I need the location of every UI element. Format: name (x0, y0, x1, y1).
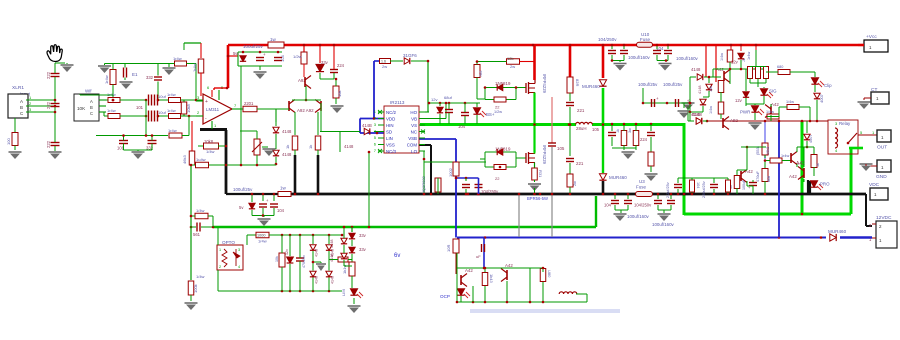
svg-text:104: 104 (277, 208, 285, 213)
svg-text:12k: 12k (507, 56, 513, 61)
svg-text:1r4w: 1r4w (168, 128, 177, 133)
svg-text:OPTO: OPTO (222, 240, 235, 245)
svg-text:68uf: 68uf (444, 95, 453, 100)
svg-text:LIM: LIM (341, 289, 346, 296)
svg-text:E1: E1 (132, 72, 138, 77)
svg-text:Relay: Relay (839, 121, 851, 126)
svg-text:A42: A42 (505, 263, 513, 268)
svg-text:104/250v: 104/250v (481, 189, 499, 194)
svg-text:1/4w: 1/4w (196, 208, 205, 213)
svg-text:XLR1: XLR1 (12, 85, 24, 91)
svg-text:220uf/25v: 220uf/25v (702, 181, 706, 198)
svg-text:1k: 1k (616, 129, 620, 133)
svg-text:LO: LO (411, 149, 417, 154)
svg-text:224: 224 (337, 63, 345, 68)
svg-text:100uf/25v: 100uf/25v (233, 187, 253, 192)
svg-text:105: 105 (557, 146, 565, 151)
svg-text:A92: A92 (730, 118, 738, 123)
svg-text:LIN: LIN (386, 136, 393, 141)
svg-text:28uH: 28uH (576, 126, 587, 131)
svg-text:105: 105 (592, 127, 600, 132)
svg-text:1: 1 (219, 248, 221, 252)
svg-text:GND: GND (876, 174, 887, 180)
svg-text:1/4w: 1/4w (196, 274, 205, 279)
svg-text:561: 561 (193, 232, 201, 237)
svg-text:Fuse: Fuse (636, 185, 647, 190)
svg-text:10R: 10R (446, 245, 451, 252)
svg-text:IRFP4229: IRFP4229 (542, 145, 547, 165)
svg-text:A42: A42 (789, 174, 797, 179)
svg-text:2w: 2w (382, 64, 387, 69)
svg-text:224: 224 (640, 137, 648, 142)
svg-text:MUR460: MUR460 (609, 175, 627, 180)
svg-text:12v: 12v (431, 97, 437, 102)
svg-text:7k5: 7k5 (478, 70, 483, 77)
svg-text:4148: 4148 (698, 86, 702, 94)
svg-text:100uf/160v: 100uf/160v (652, 222, 675, 227)
svg-text:1w: 1w (270, 37, 277, 42)
svg-text:100uf/160v: 100uf/160v (676, 56, 699, 61)
svg-text:3w: 3w (628, 128, 632, 133)
svg-text:2w: 2w (510, 64, 515, 69)
svg-text:1/2w: 1/2w (494, 110, 502, 114)
svg-text:+Vcc: +Vcc (866, 34, 877, 40)
svg-text:1/4w: 1/4w (766, 110, 774, 114)
svg-text:12v: 12v (731, 60, 739, 65)
svg-text:101: 101 (136, 105, 144, 110)
svg-text:HIN: HIN (386, 123, 394, 128)
svg-text:4148: 4148 (315, 249, 319, 257)
svg-text:VDC: VDC (869, 182, 880, 188)
svg-text:10k: 10k (709, 86, 713, 92)
svg-text:4148: 4148 (282, 129, 292, 134)
svg-text:1002: 1002 (448, 167, 453, 177)
svg-text:VDD: VDD (386, 117, 395, 122)
svg-text:470/25v: 470/25v (302, 255, 306, 268)
svg-text:IR2113: IR2113 (390, 100, 405, 105)
svg-text:100: 100 (6, 138, 11, 145)
svg-text:1r4w: 1r4w (107, 108, 116, 113)
svg-text:222: 222 (46, 101, 51, 109)
svg-text:SD: SD (386, 130, 392, 135)
svg-text:104: 104 (458, 124, 466, 129)
svg-text:COM: COM (407, 143, 418, 148)
svg-text:10k8: 10k8 (204, 139, 214, 144)
svg-text:1w: 1w (280, 186, 287, 191)
svg-text:1000: 1000 (257, 234, 265, 238)
svg-text:46k3: 46k3 (182, 155, 187, 164)
svg-text:1/4w: 1/4w (709, 106, 713, 114)
svg-text:1k: 1k (816, 163, 820, 167)
svg-text:414B: 414B (362, 123, 372, 128)
svg-text:HQ2R022: HQ2R022 (421, 175, 426, 194)
svg-text:1.6: 1.6 (381, 60, 386, 64)
svg-text:A92 A92: A92 A92 (297, 108, 314, 113)
svg-text:C: C (90, 111, 93, 116)
svg-text:4148: 4148 (691, 67, 701, 72)
svg-text:VS: VS (411, 123, 417, 128)
svg-text:1r4w: 1r4w (167, 108, 176, 113)
svg-text:A: A (90, 99, 93, 104)
svg-text:HO: HO (410, 110, 417, 115)
svg-text:1r4w: 1r4w (781, 154, 789, 158)
svg-text:10k: 10k (337, 91, 342, 97)
svg-text:10k8: 10k8 (186, 104, 191, 113)
svg-text:VSB: VSB (408, 136, 417, 141)
svg-text:Fuse: Fuse (640, 37, 651, 42)
svg-text:U3: U3 (639, 179, 645, 184)
svg-text:4148: 4148 (330, 254, 334, 262)
svg-text:4007: 4007 (819, 93, 824, 103)
svg-text:PWR: PWR (740, 110, 750, 115)
svg-text:1r4w: 1r4w (258, 239, 267, 244)
svg-text:BPR56-5W: BPR56-5W (527, 196, 548, 201)
svg-text:4148: 4148 (331, 276, 335, 284)
svg-text:+: + (263, 52, 266, 57)
svg-text:PRO: PRO (820, 182, 830, 187)
svg-text:100uf/25v: 100uf/25v (638, 82, 658, 87)
svg-text:1r4w: 1r4w (747, 52, 751, 60)
svg-text:12v: 12v (285, 249, 289, 255)
svg-text:A: A (20, 99, 23, 104)
svg-text:R31: R31 (538, 170, 543, 178)
svg-text:A42: A42 (465, 268, 473, 273)
svg-text:MUR460: MUR460 (828, 229, 847, 234)
svg-text:1r4w: 1r4w (173, 56, 182, 61)
svg-text:10uf: 10uf (158, 94, 167, 99)
svg-text:10k: 10k (275, 256, 279, 262)
svg-text:104: 104 (604, 203, 612, 208)
svg-text:1/4w: 1/4w (786, 100, 794, 104)
svg-text:100uf/160v: 100uf/160v (628, 55, 651, 60)
svg-text:1r4w: 1r4w (192, 63, 197, 72)
svg-text:2w: 2w (573, 181, 577, 186)
svg-text:10k3: 10k3 (766, 147, 770, 155)
svg-text:B: B (90, 105, 93, 110)
svg-text:OUT: OUT (877, 145, 887, 151)
svg-text:4007: 4007 (809, 135, 813, 143)
svg-text:A42: A42 (771, 102, 779, 107)
svg-text:4148: 4148 (315, 276, 319, 284)
svg-text:104/250v: 104/250v (634, 203, 652, 208)
svg-text:VSS: VSS (386, 143, 395, 148)
svg-text:B: B (20, 105, 23, 110)
svg-text:JL: JL (742, 58, 746, 62)
svg-text:LM311: LM311 (206, 107, 220, 112)
svg-text:6v: 6v (394, 253, 400, 259)
svg-text:1/2w: 1/2w (293, 54, 302, 59)
svg-text:1/4w: 1/4w (206, 149, 215, 154)
svg-text:+: + (205, 99, 208, 105)
svg-text:10uf: 10uf (158, 110, 167, 115)
svg-text:100uf/160v: 100uf/160v (627, 214, 650, 219)
svg-text:4148: 4148 (330, 240, 334, 248)
svg-text:6k8: 6k8 (767, 176, 771, 182)
svg-text:100uf/25v: 100uf/25v (243, 44, 264, 49)
svg-text:NC: NC (411, 130, 417, 135)
svg-text:2201: 2201 (244, 101, 254, 106)
svg-text:100uF: 100uF (742, 179, 746, 190)
svg-text:+: + (656, 96, 659, 101)
svg-text:1k: 1k (308, 145, 313, 149)
svg-text:104/250v: 104/250v (598, 37, 617, 42)
svg-text:NC/2: NC/2 (386, 110, 397, 115)
svg-text:104: 104 (696, 182, 700, 188)
svg-text:2.2uf/25v: 2.2uf/25v (666, 182, 670, 198)
svg-text:33v: 33v (359, 233, 367, 238)
svg-text:104: 104 (280, 55, 285, 62)
svg-text:3: 3 (238, 248, 240, 252)
svg-text:MUR460: MUR460 (582, 84, 600, 89)
svg-text:31GF6: 31GF6 (403, 53, 417, 58)
svg-text:Clip: Clip (824, 83, 832, 88)
svg-text:33v: 33v (359, 247, 367, 252)
svg-text:2: 2 (219, 265, 221, 269)
svg-text:1u4w: 1u4w (196, 157, 206, 162)
svg-text:1k43: 1k43 (489, 274, 494, 283)
svg-text:1r4w: 1r4w (167, 92, 176, 97)
svg-text:680: 680 (777, 65, 783, 69)
svg-text:4148: 4148 (282, 152, 292, 157)
svg-text:SIG: SIG (769, 89, 777, 94)
svg-text:470uF: 470uF (756, 171, 760, 182)
svg-text:4148: 4148 (344, 144, 354, 149)
svg-text:4148: 4148 (691, 112, 701, 117)
svg-text:222: 222 (46, 71, 51, 79)
svg-text:Wif: Wif (85, 89, 92, 94)
svg-text:221: 221 (576, 161, 584, 166)
svg-text:1k: 1k (285, 145, 290, 149)
svg-text:12v: 12v (735, 98, 743, 103)
svg-text:33v: 33v (321, 60, 329, 65)
svg-text:uF: uF (476, 254, 481, 259)
svg-text:22: 22 (495, 105, 500, 110)
svg-text:100uf/25v: 100uf/25v (663, 82, 683, 87)
svg-text:332: 332 (146, 75, 154, 80)
svg-text:22: 22 (495, 176, 500, 181)
svg-text:1/4w: 1/4w (720, 53, 724, 61)
svg-text:82R: 82R (575, 79, 580, 86)
svg-text:IRFP4229: IRFP4229 (542, 74, 547, 94)
svg-text:1r4w: 1r4w (104, 75, 109, 84)
svg-text:100k: 100k (193, 284, 198, 293)
svg-text:4: 4 (238, 265, 240, 269)
svg-text:221: 221 (577, 108, 585, 113)
svg-text:NC/3: NC/3 (386, 149, 397, 154)
svg-text:12VDC: 12VDC (876, 215, 892, 221)
svg-text:OCP: OCP (440, 294, 450, 299)
svg-text:10K: 10K (77, 106, 86, 111)
svg-text:222: 222 (46, 140, 51, 148)
svg-text:U80: U80 (547, 270, 552, 278)
svg-text:VB: VB (411, 117, 417, 122)
